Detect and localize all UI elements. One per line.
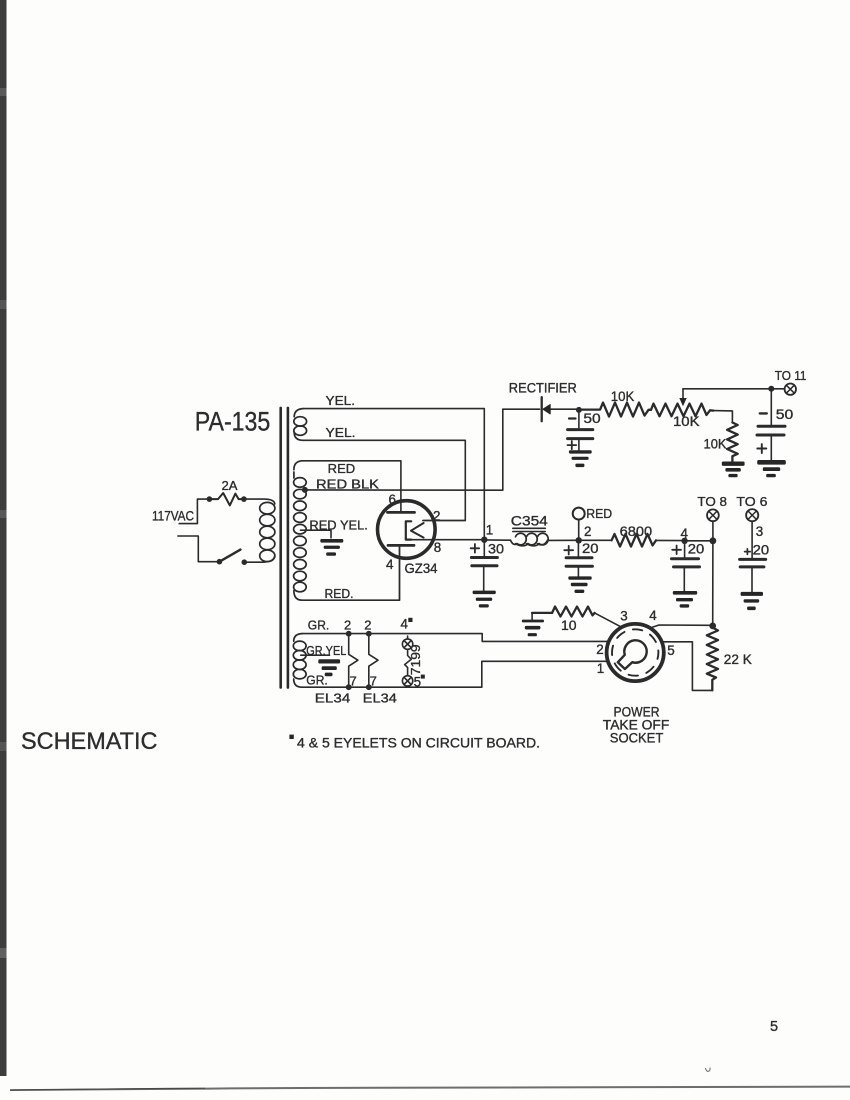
capacitor C-50 output : lead	[770, 389, 772, 425]
node RED BLK tap	[302, 487, 308, 493]
svg-text:TO 11: TO 11	[775, 368, 807, 383]
node bias input	[576, 407, 582, 413]
GZ34 cathode bracket	[406, 521, 411, 539]
svg-text:4: 4	[401, 616, 409, 631]
svg-text:5: 5	[770, 1019, 778, 1035]
svg-text:2: 2	[433, 508, 440, 523]
B+ rail 6800 to node4	[656, 539, 682, 541]
svg-text:10: 10	[561, 618, 577, 633]
GZ34 plate (pin 4)	[388, 544, 414, 547]
svg-text:GZ34: GZ34	[405, 561, 438, 576]
svg-text:4 & 5 EYELETS ON CIRCUIT BOARD: 4 & 5 EYELETS ON CIRCUIT BOARD.	[297, 735, 540, 750]
wire switch to primary	[244, 557, 274, 563]
stray pen mark	[706, 1068, 711, 1071]
node TO8 junction	[710, 537, 717, 544]
scan bottom page edge line	[10, 1086, 850, 1091]
svg-text:7199: 7199	[409, 644, 423, 675]
node pin4/22K junction	[709, 623, 716, 630]
wire socket pin 5	[663, 642, 713, 691]
svg-text:3: 3	[620, 609, 627, 624]
wire YEL lower to GZ34 pin 2	[303, 440, 465, 520]
svg-text:GR.: GR.	[308, 617, 330, 632]
wire wiper to TO 11	[683, 388, 771, 390]
GZ34 plate (pin 6)	[388, 511, 415, 514]
svg-text:GR.: GR.	[306, 673, 328, 688]
ground GR tap	[318, 659, 340, 676]
transformer T1 core	[281, 408, 288, 688]
wire AC hot lead	[179, 499, 209, 523]
lamp terminal 7199 heater bottom	[402, 676, 412, 686]
wire RED top to GZ34 pin 6	[302, 461, 401, 513]
label +	[568, 441, 577, 449]
wire rectifier left	[503, 408, 540, 410]
resistor 22K	[707, 628, 718, 691]
svg-text:20: 20	[753, 543, 770, 558]
capacitor 20uF node4	[684, 541, 686, 557]
label +	[757, 444, 766, 453]
terminal RED lead	[573, 508, 585, 520]
ground cap20 node4	[673, 591, 697, 608]
svg-text:SOCKET: SOCKET	[610, 731, 664, 746]
transformer T1 HV winding (RED)	[294, 461, 307, 600]
svg-text:5: 5	[667, 643, 674, 658]
choke C354	[511, 533, 549, 546]
label -	[569, 417, 576, 419]
svg-text:YEL.: YEL.	[326, 425, 356, 440]
node EL34 V1 pin7	[346, 684, 352, 690]
svg-text:4: 4	[681, 526, 689, 541]
ground bias cap	[569, 450, 592, 467]
svg-text:RED.: RED.	[325, 586, 354, 601]
svg-text:1: 1	[597, 661, 604, 676]
svg-text:PA-135: PA-135	[195, 407, 270, 437]
ground cap20 node2	[568, 576, 591, 593]
svg-text:2A: 2A	[222, 478, 238, 493]
wire 7199 heater link	[405, 636, 412, 687]
ground output cap	[757, 460, 786, 477]
wire RED center tap	[301, 530, 332, 538]
svg-text:TO 6: TO 6	[736, 494, 767, 509]
B+ rail node1 to choke	[484, 539, 510, 541]
svg-text:EL34: EL34	[363, 691, 397, 706]
terminal TO 6	[746, 509, 758, 521]
svg-text:10K: 10K	[704, 436, 727, 451]
svg-text:1: 1	[486, 523, 493, 538]
ground cap20 node3	[741, 592, 763, 610]
svg-text:20: 20	[688, 542, 705, 557]
wire RED bottom to GZ34 pin 4	[302, 547, 400, 600]
transformer T1 primary winding	[260, 502, 275, 561]
svg-text:TO 8: TO 8	[697, 494, 727, 509]
svg-text:SCHEMATIC: SCHEMATIC	[21, 729, 158, 755]
transformer T1 heater winding (GR)	[293, 634, 306, 688]
node EL34 V1 pin2	[346, 631, 352, 637]
capacitor C-50 bias input : lead	[578, 410, 580, 428]
svg-text:2: 2	[584, 524, 591, 539]
node EL34 V2 pin7	[366, 684, 372, 690]
svg-text:3: 3	[756, 524, 763, 539]
resistor 10 ohm	[532, 612, 552, 614]
ground center tap	[320, 539, 343, 556]
potentiometer 10K	[651, 404, 714, 417]
svg-text:6: 6	[389, 492, 396, 507]
resistor 10K series	[579, 403, 651, 417]
wire rail down to socket pin4 junction	[712, 541, 714, 626]
svg-text:4: 4	[386, 557, 394, 572]
B+ rail choke to node2	[548, 539, 576, 541]
GZ34 pin4 lead	[399, 545, 401, 600]
socket keyhole	[618, 640, 647, 669]
GZ34 pin 2 wire	[423, 520, 465, 522]
resistor 6800	[612, 534, 656, 547]
svg-text:7: 7	[350, 674, 357, 689]
cap lead to ground	[578, 439, 580, 450]
node fuse right	[241, 496, 247, 502]
svg-text:C354: C354	[511, 514, 548, 529]
svg-text:30: 30	[488, 541, 504, 556]
wire TO6 down	[751, 521, 753, 558]
wire heater bus top	[302, 634, 607, 642]
heater EL34 V2	[369, 636, 378, 685]
svg-text:50: 50	[583, 411, 600, 426]
ground 10K shunt	[722, 462, 745, 478]
wire 10 ohm to socket pin 3	[595, 613, 622, 628]
capacitor C-50 plates	[568, 428, 593, 431]
svg-text:2: 2	[596, 642, 603, 657]
wire TO8 to rail	[712, 521, 714, 541]
node 2	[576, 537, 582, 543]
node fuse left	[207, 496, 213, 502]
ground 10 ohm	[531, 613, 533, 620]
B+ rail node2 to 6800	[579, 539, 612, 541]
capacitor 30uF node1	[483, 540, 485, 556]
wire fuse to primary	[244, 499, 275, 504]
wire RED BLK tap to rectifier	[305, 409, 503, 490]
wire YEL upper to node 1	[303, 409, 484, 540]
capacitor 20uF node2	[577, 540, 579, 556]
node 4	[681, 538, 687, 544]
heater EL34 V1	[349, 636, 358, 685]
svg-text:RECTIFIER: RECTIFIER	[509, 381, 577, 396]
scan left edge strip	[0, 0, 7, 1076]
svg-text:RED: RED	[586, 506, 612, 521]
terminal TO 11	[785, 384, 796, 395]
svg-text:YEL.: YEL.	[326, 393, 356, 408]
node 1	[481, 537, 487, 543]
svg-text:10K: 10K	[673, 414, 700, 429]
svg-text:EL34: EL34	[315, 691, 351, 706]
svg-text:7: 7	[370, 674, 377, 689]
terminal TO 8	[707, 509, 719, 521]
svg-text:50: 50	[776, 407, 794, 422]
wire socket pin 4	[651, 625, 710, 628]
B+ rail node4 to TO8 junction	[685, 540, 713, 542]
wire diode anode	[550, 408, 576, 410]
label -	[760, 412, 767, 414]
svg-text:2: 2	[364, 617, 371, 632]
wire GR center tap	[301, 654, 330, 656]
svg-text:4: 4	[649, 608, 657, 623]
socket P1 inner dashed	[612, 629, 658, 675]
switch S1	[217, 559, 223, 565]
lamp terminal 7199 heater top	[402, 639, 412, 649]
svg-text:2: 2	[344, 617, 351, 632]
wire AC neutral lead	[178, 536, 217, 562]
cap lead	[770, 435, 772, 460]
svg-text:22 K: 22 K	[724, 652, 752, 667]
node TO11 junction	[768, 386, 774, 392]
GZ34 filament chevron	[411, 523, 424, 538]
wire heater bus bottom	[302, 661, 608, 687]
diode D1 rectifier	[541, 397, 543, 421]
socket P1 outer	[607, 624, 664, 681]
ground cap30	[473, 591, 496, 608]
tube V3 GZ34 envelope	[378, 501, 436, 559]
svg-text:8: 8	[434, 540, 441, 555]
svg-text:RED: RED	[328, 461, 356, 476]
svg-text:117VAC: 117VAC	[152, 508, 194, 523]
transformer T1 5V winding (YEL)	[294, 409, 307, 441]
wire pot right to 10K shunt	[714, 411, 733, 423]
svg-text:20: 20	[582, 541, 599, 556]
GZ34 pin 8 wire to node 1	[406, 539, 481, 541]
resistor 10K shunt	[727, 423, 738, 462]
pot wiper arrow	[682, 389, 684, 400]
svg-text:5: 5	[414, 674, 421, 689]
capacitor 20uF node3	[745, 549, 751, 555]
footnote eyelet mark	[289, 735, 293, 739]
node EL34 V2 pin2	[366, 631, 372, 637]
capacitor C-50 output plates	[758, 425, 785, 428]
